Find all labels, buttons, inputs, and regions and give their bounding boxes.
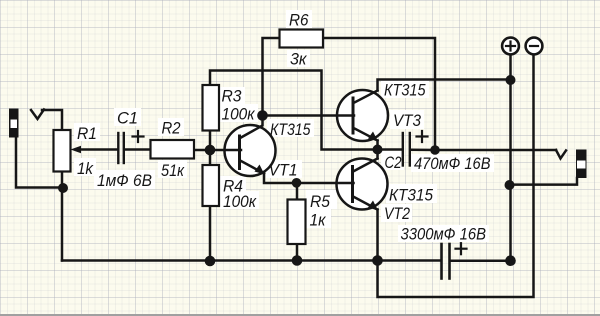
wire R5 top [296, 183, 299, 200]
microphone jack [9, 109, 19, 138]
wire C1 to R2 [125, 148, 151, 151]
wire 3300 cap right to plus rail [451, 259, 511, 262]
svg-text:3к: 3к [290, 50, 307, 69]
capacitor C1 [118, 133, 124, 163]
transistor VT3 circle [337, 90, 388, 141]
transistor VT3 [352, 91, 379, 142]
svg-text:3300мФ 16В: 3300мФ 16В [401, 225, 487, 244]
wire R3 top feedback to output node [210, 71, 378, 150]
svg-text:КТ315: КТ315 [389, 186, 433, 205]
wire VT3 emitter to output node [376, 141, 379, 150]
wire node B to speaker [435, 149, 556, 152]
svg-text:470мФ 16В: 470мФ 16В [414, 154, 491, 173]
capacitor 3300uF plus sign [456, 243, 467, 254]
bottom page edge [0, 314, 600, 316]
capacitor C2 plus sign [417, 131, 428, 142]
svg-text:КТ315: КТ315 [384, 81, 426, 100]
svg-text:R3: R3 [222, 87, 242, 106]
wire VT2 collector to output node [376, 150, 379, 159]
svg-text:1к: 1к [310, 211, 327, 230]
resistor R5 [288, 200, 306, 245]
R1 wiper arrow [71, 146, 82, 153]
label backgrounds [74, 10, 494, 242]
wire R2 to node A [194, 149, 210, 152]
wire output node to C2 [378, 148, 402, 151]
svg-text:R5: R5 [310, 192, 330, 211]
svg-text:VT2: VT2 [384, 204, 410, 223]
svg-text:R6: R6 [289, 11, 309, 30]
speaker V mark [556, 150, 566, 159]
capacitor C1 plus sign [133, 131, 144, 142]
svg-text:100к: 100к [223, 192, 257, 211]
capacitor C2 [403, 133, 410, 166]
svg-text:VT1: VT1 [269, 161, 298, 180]
svg-text:51к: 51к [161, 161, 185, 180]
svg-text:VT3: VT3 [393, 111, 421, 130]
svg-text:100к: 100к [222, 105, 256, 124]
resistor R1 (potentiometer) [54, 130, 71, 172]
resistor R4 [203, 165, 220, 206]
speaker jack [576, 150, 587, 179]
svg-text:R1: R1 [77, 124, 97, 143]
wire minus terminal to bottom [378, 55, 534, 297]
svg-text:C1: C1 [117, 109, 138, 128]
resistor R3 [203, 85, 220, 131]
wire plus terminal down rail [509, 55, 512, 261]
wire VT1 emitter to R5/VT2 base [264, 174, 354, 184]
wire mic to R1 bottom junction [16, 138, 63, 188]
wire node A down to R4 [209, 150, 212, 165]
wire ground rail [62, 259, 440, 262]
wire input V to R1 top [31, 110, 44, 120]
svg-text:R2: R2 [162, 119, 181, 138]
svg-text:КТ315: КТ315 [270, 120, 311, 139]
capacitor 3300uF [442, 244, 450, 279]
transistor VT2 [351, 159, 378, 211]
resistor R6 [280, 30, 324, 48]
wire C2 to node B [411, 149, 435, 152]
wire R1 bottom to ground rail [61, 172, 64, 261]
transistor VT1 [238, 116, 265, 175]
svg-text:1мФ 6В: 1мФ 6В [97, 171, 152, 190]
transistor VT1 circle [225, 125, 276, 176]
wire speaker bottom to plus rail [510, 178, 578, 185]
transistor VT2 circle [337, 159, 388, 210]
wire R6 right to C2 right node [323, 38, 435, 150]
plus terminal [502, 38, 519, 55]
resistor R2 [151, 140, 195, 159]
wire R4 bottom to rail [209, 206, 212, 261]
wire VT2 emitter to rail [376, 210, 379, 261]
minus terminal [526, 38, 543, 55]
svg-text:C2: C2 [385, 153, 402, 172]
wire R5 bottom to rail [296, 244, 299, 261]
svg-text:1k: 1k [77, 159, 94, 178]
wire node A to VT1 base [210, 149, 241, 152]
wire node A up to R3 [209, 131, 212, 150]
wire wiper to C1 [76, 148, 117, 151]
wire VT3 collector to plus rail [378, 80, 511, 91]
wire VT1 collector node up to R6 left [263, 38, 280, 116]
wire VT1 collector node to VT3 base [263, 114, 355, 117]
